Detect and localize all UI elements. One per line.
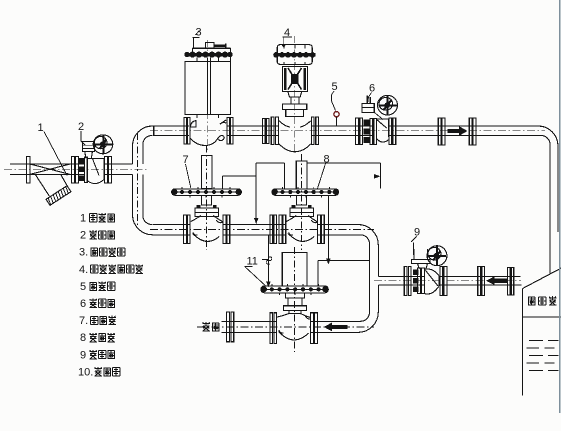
relief valve regulator head (item 11) — [261, 247, 328, 352]
regulator 8 diaphragm — [272, 187, 339, 198]
stop valve 6 bonnet and handwheel — [362, 95, 398, 119]
tank feed pipe walls (valve 9 line) — [374, 277, 522, 286]
sensing line from middle pipe down to reg11 — [262, 235, 272, 287]
handwheel — [93, 135, 113, 154]
label 1 — [38, 122, 68, 176]
svg-text:3.: 3. — [79, 247, 88, 259]
svg-text:9: 9 — [80, 349, 86, 361]
label 3 — [193, 27, 202, 48]
regulator 8 flanges — [279, 215, 324, 244]
svg-text:8: 8 — [324, 154, 330, 166]
svg-text:5: 5 — [80, 281, 86, 293]
inlet flange — [27, 157, 30, 184]
legend list — [78, 213, 143, 379]
joint flange pair near tank — [508, 268, 514, 295]
legend item 4 — [91, 264, 143, 273]
liquid dashes — [527, 341, 559, 371]
vent line on top — [283, 37, 292, 45]
outlet flanges — [104, 157, 107, 184]
svg-text:10.: 10. — [78, 366, 93, 378]
legend item 1 guolvqi — [90, 213, 115, 222]
svg-text:5: 5 — [332, 81, 338, 93]
svg-text:1: 1 — [80, 213, 86, 225]
stop valve 2 — [72, 135, 113, 184]
svg-text:4: 4 — [284, 27, 290, 39]
joint flanges after arrow — [469, 118, 476, 145]
regulator 7 diaphragm — [172, 187, 242, 198]
flow arrow right (top pipe) — [448, 126, 468, 136]
top pipe walls — [150, 126, 545, 136]
joint flanges after valve 6 — [438, 118, 445, 145]
flow arrow left (tank feed) — [486, 276, 507, 285]
valve 3 flanges — [184, 118, 233, 145]
pilot link line to reg8 — [256, 163, 284, 189]
svg-text:6: 6 — [369, 83, 375, 95]
svg-text:1: 1 — [38, 122, 44, 134]
legend item 7 — [91, 316, 116, 325]
stop valve 6 body — [377, 118, 396, 145]
bonnet — [83, 142, 95, 152]
regulator 8 spring tube — [296, 154, 307, 250]
control valve 4 actuator — [273, 36, 315, 152]
relief valve (bottom) flanges — [270, 313, 318, 344]
legend item 2 jiezhifa — [89, 230, 115, 239]
stem — [85, 152, 93, 159]
sensing line reg11 to down pipe — [318, 261, 370, 286]
label 7 — [183, 154, 191, 188]
label 6 — [368, 83, 375, 104]
inlet pipe centerline — [4, 168, 148, 170]
pilot line reg8 down — [326, 195, 331, 264]
cylinder — [282, 253, 307, 286]
stop valve 9 body — [425, 267, 447, 296]
legend item 9 jiezhifa — [89, 350, 115, 359]
label 8 — [318, 154, 330, 189]
stop valve 9 flanges — [404, 267, 424, 296]
svg-text:11: 11 — [247, 256, 258, 268]
label 9 — [411, 227, 420, 256]
regulator 7 flanges — [184, 215, 230, 244]
shutoff unit valve 3 actuator — [184, 40, 232, 152]
svg-text:7.: 7. — [79, 315, 88, 327]
joint flange pair after valve 9 — [478, 267, 485, 296]
stem blocks — [288, 91, 302, 96]
faint window edge line — [559, 0, 561, 413]
label 11 — [245, 256, 267, 287]
svg-text:9: 9 — [414, 227, 420, 239]
stop valve 6 flanges — [356, 118, 377, 145]
pilot line reg7 to pipe — [223, 163, 259, 224]
label 4 — [284, 27, 290, 39]
bonnet stack — [285, 293, 304, 298]
filter 1 (Y-strainer) — [30, 164, 71, 205]
left riser pipe with elbows — [133, 126, 154, 235]
svg-text:8: 8 — [80, 332, 86, 344]
bottom pipe left flange — [227, 312, 234, 342]
legend item 8 — [89, 333, 115, 342]
vertical pipe right of reg8 (down leg) — [358, 225, 378, 333]
reaction kettle tank — [523, 268, 561, 395]
top pipe right elbow down to tank — [538, 126, 558, 274]
legend item 10 — [94, 367, 119, 376]
body — [87, 159, 104, 184]
jinya text (inlet pressure) — [202, 322, 219, 331]
diaphragm — [261, 286, 328, 293]
svg-text:2: 2 — [80, 230, 86, 242]
flow arrow left (bottom pipe) — [324, 323, 348, 332]
bottom outlet pipe walls — [197, 321, 374, 332]
flange joint between regulators — [270, 215, 277, 244]
shutoff unit valve 3 body — [190, 120, 226, 146]
yoke — [283, 66, 308, 91]
legend item 5 yalibiao — [90, 282, 115, 291]
regulator 7 body — [191, 216, 223, 242]
svg-text:3: 3 — [196, 27, 202, 39]
legend item 3 — [91, 247, 125, 256]
regulator 7 bonnet — [195, 195, 219, 216]
legend item 6 jiezhifa — [89, 299, 115, 308]
inlet pipe walls — [10, 164, 133, 174]
tank label fanyingfu — [528, 296, 557, 305]
relief valve body (bottom) — [277, 314, 311, 340]
svg-text:6: 6 — [80, 298, 86, 310]
stop valve 9 bonnet and handwheel — [412, 246, 447, 269]
middle pipe walls — [150, 225, 374, 235]
dimension bracket at reg 8 — [308, 163, 381, 189]
label 5 — [332, 81, 338, 111]
regulator 7 spring tube — [201, 146, 212, 251]
flange joint before valve 4 — [263, 117, 279, 144]
label 2 — [78, 121, 86, 146]
control valve 4 body — [279, 121, 311, 152]
svg-text:4.: 4. — [79, 264, 88, 276]
regulator 8 bonnet — [290, 195, 314, 216]
pressure gauge 5 — [334, 112, 339, 126]
control valve 4 flanges right — [311, 117, 318, 144]
regulator 8 body — [286, 216, 317, 242]
